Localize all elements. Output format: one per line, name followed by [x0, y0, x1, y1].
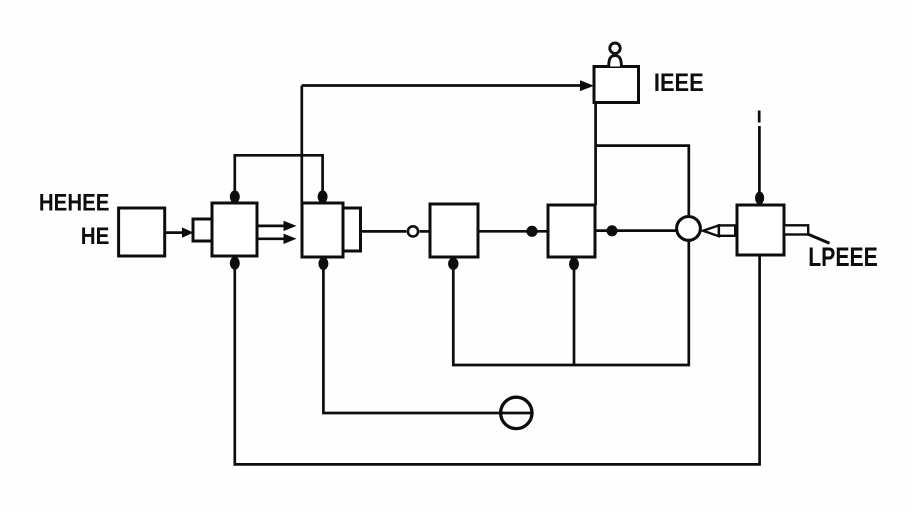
block B6 left fitting rectangle	[719, 225, 735, 235]
wire branch from IEEE stem to summing circle top	[596, 146, 689, 216]
arrowhead lower into B3	[284, 234, 297, 244]
wire vertical from top line down to B3 top-left corner	[300, 86, 303, 204]
svg-text:LPEEE: LPEEE	[808, 242, 878, 272]
wire feedback T branch up to B5 bottom	[573, 258, 576, 365]
block B3	[302, 203, 343, 257]
arrow dot into B3 top	[318, 190, 328, 203]
arrow dot into B6 top	[755, 192, 764, 205]
block B5	[548, 205, 595, 257]
person icon shoulders above IEEE box	[609, 56, 622, 67]
wire outer feedback loop B6 bottom to B2 bottom	[235, 255, 760, 464]
wire B4 to B5	[478, 230, 548, 233]
wire double arrow upper B2 to B3	[257, 225, 284, 228]
block IEEE	[594, 67, 639, 103]
arrowhead upper into B3	[284, 221, 297, 231]
wire small circle to B4	[420, 230, 430, 233]
arrow dot into B3 bottom	[318, 257, 328, 270]
junction dot on wire B4-B5	[526, 226, 537, 237]
wire top feedforward to IEEE box	[302, 84, 581, 87]
arrowhead into IEEE box	[580, 80, 594, 91]
svg-text:HE: HE	[81, 223, 110, 250]
person icon head above IEEE box	[610, 43, 620, 53]
summing junction circle	[677, 217, 701, 241]
svg-text:IEEE: IEEE	[654, 69, 704, 97]
block B6 right fitting rectangle	[784, 225, 808, 234]
wire B3 tab to small circle node	[361, 230, 407, 233]
wire summing circle bottom feedback	[453, 241, 689, 365]
wire double arrow lower B2 to B3	[257, 237, 284, 240]
wire B3 bottom down to minus circle	[323, 258, 533, 413]
arrow dot into B2 top	[230, 190, 240, 203]
junction dot on wire B5-summer	[607, 225, 618, 236]
arrowhead into B2 left tab	[182, 227, 194, 237]
block B2 left tab	[193, 219, 212, 241]
block B2	[212, 203, 257, 256]
wire B5 to summing circle	[595, 229, 676, 232]
valve triangle pointing into summing circle	[703, 225, 719, 236]
block HE input square	[119, 208, 165, 256]
lever diagonal at B6 right fitting	[807, 234, 830, 243]
svg-text:HEHEE: HEHEE	[39, 190, 110, 217]
arrow dot into B2 bottom	[230, 257, 240, 270]
wire dash above B6	[758, 111, 761, 123]
wire input arrow line from block HE to summer tab	[165, 231, 185, 234]
block B4	[430, 204, 478, 257]
node open circle between B3 tab and B4	[408, 226, 418, 236]
block B6	[737, 205, 784, 255]
arrow dot into B5 bottom	[569, 258, 579, 271]
wire bracket above B2 and B3	[235, 155, 323, 202]
wire IEEE box bottom down to B5 top corner	[594, 103, 597, 206]
arrow dot into B4 bottom	[448, 258, 458, 270]
wire vertical arrow into B6 top	[758, 126, 761, 200]
minus circle terminal on B3 feedback	[501, 397, 532, 428]
block B3 right tab	[343, 208, 361, 251]
